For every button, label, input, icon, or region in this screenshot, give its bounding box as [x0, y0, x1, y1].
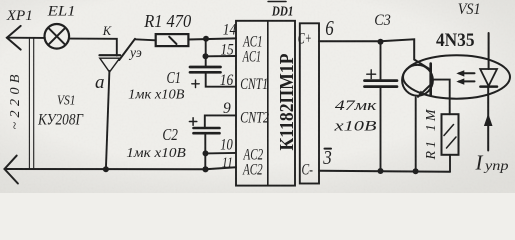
- connector XP1 pin 2 (bottom arrow): [5, 156, 18, 184]
- optocoupler VS1 4N35 body: [403, 55, 510, 98]
- resistor R1 470: [156, 34, 189, 46]
- wire: node to pin 15 and C1: [206, 39, 237, 67]
- overline of pin 3: [325, 148, 332, 150]
- label C2: [162, 125, 178, 144]
- label VS1 (optocoupler): [458, 1, 481, 18]
- label КУ208Г: [37, 112, 84, 129]
- LED of optocoupler: [480, 33, 497, 151]
- thyristor VS1 КУ208Г: [100, 39, 136, 72]
- label AC2 (pin 10): [243, 147, 263, 164]
- junction: pin 15 node: [203, 53, 209, 59]
- wire: lamp to thyristor cathode: [69, 39, 117, 56]
- label R1 1M: [424, 108, 439, 160]
- phototransistor envelope circle: [402, 65, 433, 96]
- current arrow Iупр: [484, 114, 493, 127]
- wire: pin 9 to C2: [205, 115, 236, 128]
- wire: emitter to bottom rail: [415, 98, 417, 172]
- connector XP1 pin 1 (top arrow): [7, 26, 21, 50]
- label DD1: [271, 4, 293, 19]
- resistor R1 1M: [442, 114, 459, 172]
- wire: XP1 to lamp EL1: [7, 37, 45, 39]
- label pin 15: [221, 41, 234, 58]
- label pin 11: [222, 155, 233, 171]
- label C1: [167, 68, 182, 87]
- light arrows (LED to phototransistor): [456, 70, 474, 85]
- junction: C3 bottom / rail: [378, 168, 384, 174]
- junction: emitter / rail: [413, 168, 419, 174]
- label pin 6: [325, 16, 334, 40]
- wire: bottom rail (XP1 to DD1 pin 11): [5, 167, 237, 169]
- capacitor C1: [190, 67, 221, 88]
- label pin 9: [223, 100, 231, 117]
- label К (cathode node): [102, 24, 112, 38]
- junction: C2 / bottom rail: [202, 166, 208, 172]
- junction: C3 top node: [378, 39, 384, 45]
- label УЭ: [128, 45, 142, 60]
- capacitor C3: [365, 42, 398, 171]
- wire: thyristor anode to bottom rail: [106, 71, 110, 169]
- label К1182ПМ1Р: [277, 53, 298, 150]
- label XP1: [6, 8, 33, 24]
- IC DD1 box: [236, 21, 319, 186]
- phototransistor of optocoupler: [414, 60, 430, 98]
- label а (anode): [95, 72, 105, 93]
- wire: C2 to bottom rail with pin 10 tap: [205, 133, 236, 169]
- label 1мк х10В (C2 value): [126, 145, 186, 160]
- junction: anode / bottom rail: [103, 166, 109, 172]
- label VS1: [57, 94, 76, 109]
- wire: pin 3 (C-) bottom rail to R 1M: [319, 170, 450, 173]
- label pin 14: [223, 21, 237, 38]
- label EL1: [46, 4, 75, 20]
- wire: base to R 1M: [432, 80, 450, 115]
- label C3: [374, 12, 391, 29]
- label 1мк х10В (C1 value): [128, 86, 184, 101]
- label AC1 (pin 14): [242, 34, 262, 51]
- wire: C1 to pin 16: [206, 72, 236, 86]
- label AC1 (pin 15): [242, 49, 261, 66]
- wire: thyristor gate to R1: [135, 39, 156, 40]
- label R1 470: [143, 11, 191, 31]
- capacitor C2: [189, 118, 219, 133]
- label CNT1 (pin 16): [240, 76, 268, 93]
- label CNT2 (pin 9): [240, 109, 269, 126]
- label pin 3: [322, 147, 331, 169]
- junction: pin 10 node: [203, 150, 209, 156]
- mains cord double line: [29, 38, 33, 169]
- label pin 16: [220, 72, 234, 89]
- label Iупр: [475, 151, 509, 175]
- label AC2 (pin 11): [242, 161, 262, 178]
- overline of DD1: [268, 1, 286, 3]
- label C-: [302, 162, 314, 179]
- label 4N35: [436, 30, 475, 51]
- label 47мк (C3 value): [335, 98, 378, 114]
- label ~220В: [8, 74, 23, 129]
- label C+: [298, 31, 312, 48]
- wire: pin 6 (C+) to C3 and phototransistor collector: [319, 39, 414, 59]
- label х10В (C3 value): [333, 119, 376, 135]
- junction: pin 14 node: [203, 36, 209, 42]
- lamp EL1: [45, 24, 70, 49]
- wire: R1 to DD1 pin 14: [188, 38, 236, 39]
- label pin 10: [220, 136, 233, 153]
